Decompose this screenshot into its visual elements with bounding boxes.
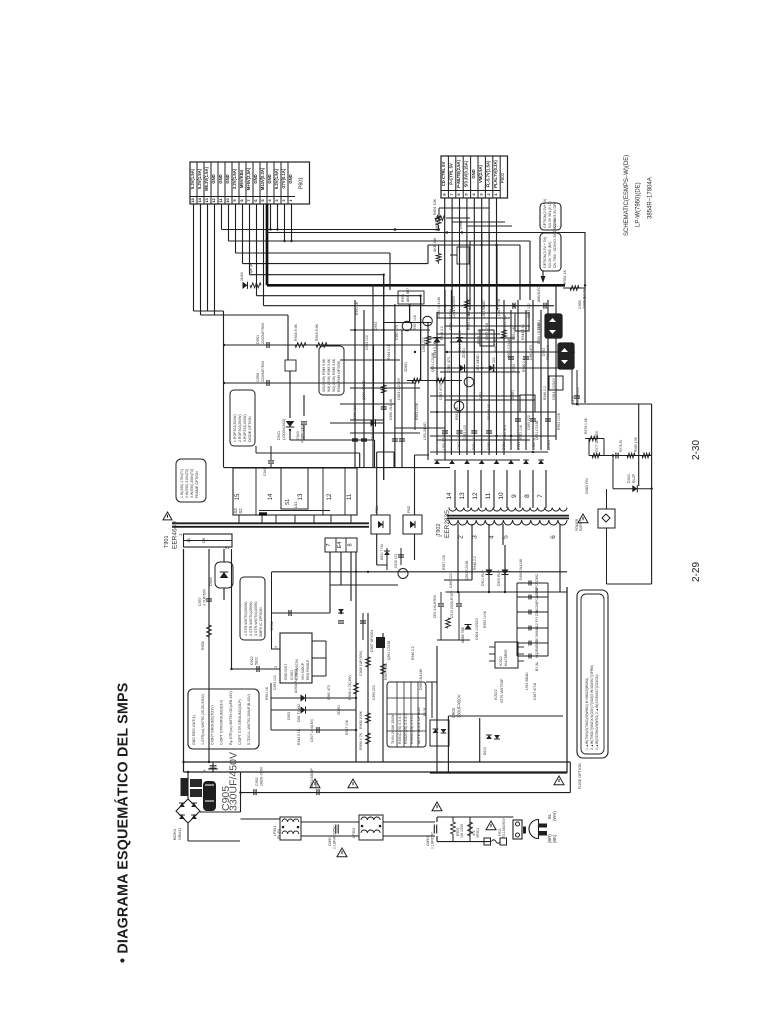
cap C950 [266, 380, 268, 386]
wires from T901 cells down to IC901 [329, 552, 331, 613]
svg-text:R946 2.2: R946 2.2 [543, 386, 547, 400]
svg-text:• DIAGRAMA ESQUEMÁTICO DEL SMP: • DIAGRAMA ESQUEMÁTICO DEL SMPS [115, 683, 132, 963]
svg-text:W4(150W) R949 5.6K: W4(150W) R949 5.6K [327, 358, 331, 392]
svg-text:C956: C956 [578, 300, 582, 309]
svg-text:1.W(450) 17IN(T1): 1.W(450) 17IN(T1) [180, 469, 184, 498]
svg-text:Ry-STR(xx)-W6753 GD(xFB.45V): Ry-STR(xx)-W6753 GD(xFB.45V) [229, 691, 233, 745]
svg-text:MUTE MODE OPTION: MUTE MODE OPTION [417, 707, 421, 744]
svg-text:BY AL: BY AL [535, 662, 539, 671]
svg-text:T902: T902 [436, 523, 442, 536]
HIC pin definition rounded box [188, 689, 259, 749]
svg-text:L951 BEAD: L951 BEAD [482, 300, 486, 318]
warning triangle CM902 [432, 802, 442, 811]
svg-text:D956 1N4148: D956 1N4148 [437, 297, 441, 318]
svg-text:STR-W6750F: STR-W6750F [499, 678, 504, 703]
mesh small components [412, 378, 421, 383]
rail y572 [272, 571, 568, 573]
svg-text:C908 1UF(50V): C908 1UF(50V) [359, 651, 363, 676]
component stack right of T902 [517, 582, 548, 584]
AC wire top [241, 818, 281, 820]
varistor VR901 [468, 822, 473, 836]
svg-text:(1000V/26A): (1000V/26A) [282, 418, 286, 440]
T902 primary pins [457, 524, 459, 545]
svg-text:4: 4 [274, 646, 278, 648]
svg-text:R906 4.7K: R906 4.7K [359, 732, 363, 750]
right column x368 x383 [367, 613, 369, 762]
electrolytic cap body [203, 781, 216, 811]
svg-text:5/3.3V 7960 (B/I): 5/3.3V 7960 (B/I) [548, 242, 552, 268]
svg-text:R974 1.5K: R974 1.5K [584, 417, 588, 434]
svg-text:S1: S1 [285, 499, 291, 505]
svg-text:3.W(650) 25IN(T3): 3.W(650) 25IN(T3) [190, 469, 194, 498]
svg-text:CM902: CM902 [426, 835, 430, 846]
svg-text:C950: C950 [256, 373, 260, 382]
resistor R949 [316, 343, 327, 348]
svg-text:FRAME OPTION: FRAME OPTION [195, 471, 199, 498]
T901 label [163, 512, 172, 520]
svg-text:12: 12 [472, 492, 479, 500]
svg-text:5.3V(1.5A): 5.3V(1.5A) [197, 168, 202, 189]
AC plug [529, 820, 539, 839]
svg-text:IC922: IC922 [499, 656, 503, 666]
svg-text:CR1 5.6UF/50V: CR1 5.6UF/50V [433, 594, 437, 618]
component box EM [457, 247, 469, 264]
svg-text:IC922: IC922 [493, 689, 498, 700]
bus wires from P801 [221, 204, 223, 230]
svg-text:C953 102: C953 102 [503, 315, 507, 330]
wires to jumper [606, 489, 608, 509]
svg-text:R944 5.1K: R944 5.1K [487, 403, 491, 420]
wires into jumper boxes [376, 452, 378, 515]
cap D922 on y669 [256, 666, 258, 672]
svg-text:R985 1.5K: R985 1.5K [634, 436, 638, 452]
svg-text:C953 102: C953 102 [365, 335, 369, 350]
T902 secondary pins [454, 470, 456, 508]
svg-text:C910 2200UF/16V: C910 2200UF/16V [450, 590, 454, 618]
FUSE OPTION rounded boxes [577, 590, 608, 758]
jumper box DR1 [371, 515, 390, 534]
svg-text:C953 102: C953 102 [527, 303, 531, 318]
svg-text:C960 473: C960 473 [395, 325, 399, 340]
dense mesh horizontals [437, 312, 520, 314]
cap C907 on y730 [316, 727, 318, 733]
svg-text:M5.3V(1.5A): M5.3V(1.5A) [204, 167, 209, 191]
svg-text:D956 1N4148: D956 1N4148 [389, 399, 393, 420]
dense mesh verticals [354, 300, 356, 468]
svg-text:W5(200W) R949 5.6K: W5(200W) R949 5.6K [322, 358, 326, 392]
box IC951 [480, 330, 494, 346]
svg-text:D953: D953 [374, 322, 378, 330]
IC901 lower wires [271, 697, 356, 699]
cap C976 on vertical [576, 370, 578, 404]
svg-text:1N60: 1N60 [240, 272, 244, 281]
staircase wires to T901 [290, 439, 375, 441]
component row y455 [589, 455, 652, 457]
svg-text:VIN S/OCP: VIN S/OCP [301, 662, 305, 680]
cap CM902 [433, 825, 435, 834]
vertical x240 drop [240, 772, 242, 812]
svg-text:R944 5.1K: R944 5.1K [433, 341, 437, 358]
svg-text:L951 BEAD: L951 BEAD [423, 422, 427, 440]
svg-text:5.3V(1.5A): 5.3V(1.5A) [190, 168, 195, 189]
svg-text:10: 10 [498, 492, 505, 500]
svg-text:C953 102: C953 102 [487, 435, 491, 450]
wire y345 snubber top [224, 344, 373, 346]
svg-text:R954 1K: R954 1K [563, 269, 567, 284]
svg-text:R957 10K: R957 10K [345, 719, 349, 735]
svg-text:ZD951: ZD951 [547, 440, 551, 450]
svg-text:3: 3 [472, 535, 479, 539]
svg-text:ZD951: ZD951 [337, 705, 341, 715]
relay RL91 [430, 720, 449, 746]
svg-text:C967 470U: C967 470U [497, 298, 501, 316]
svg-text:11: 11 [485, 492, 492, 499]
transistor Q910 [330, 584, 398, 586]
svg-text:R949 5.6K: R949 5.6K [315, 323, 319, 341]
svg-text:2200UF/50V: 2200UF/50V [261, 360, 265, 382]
svg-text:D956 1N4148: D956 1N4148 [519, 559, 523, 580]
svg-text:D922: D922 [250, 656, 254, 665]
warning triangle 1 [310, 779, 320, 788]
svg-text:C977 1UF/50V: C977 1UF/50V [595, 430, 599, 452]
trunk x223.5 [223, 311, 225, 468]
svg-text:C/ONT GROUND(TO1V): C/ONT GROUND(TO1V) [210, 705, 214, 745]
svg-text:0.1UF/CA?: 0.1UF/CA? [431, 832, 435, 849]
svg-text:R944 5.1K: R944 5.1K [387, 343, 391, 360]
svg-text:R948 5.6K: R948 5.6K [294, 323, 298, 341]
cap C940 [303, 395, 305, 416]
svg-text:D952: D952 [459, 220, 463, 229]
C905 plus cap [212, 762, 214, 772]
svg-text:(BK): (BK) [552, 834, 557, 843]
svg-text:C940: C940 [296, 431, 300, 440]
diode row above T902 [434, 460, 440, 464]
svg-text:T901: T901 [164, 535, 170, 548]
svg-text:3854R–17804A: 3854R–17804A [648, 177, 654, 219]
svg-text:M5V/KB4: M5V/KB4 [239, 169, 244, 188]
svg-text:13: 13 [298, 493, 304, 500]
svg-text:C953 102: C953 102 [463, 425, 467, 440]
diode D941 [289, 371, 291, 418]
svg-text:D907 UF4004: D907 UF4004 [370, 630, 374, 652]
svg-text:C955 222: C955 222 [492, 357, 496, 372]
box PC817 [520, 395, 535, 412]
svg-text:GBU4J: GBU4J [178, 828, 182, 840]
svg-text:R803: R803 [435, 222, 439, 231]
svg-text:8: 8 [524, 494, 531, 498]
varistor area [451, 822, 456, 834]
connector P801 [190, 162, 310, 204]
diode D957 with resistor [243, 282, 248, 289]
vertical x231 upper [231, 549, 233, 669]
svg-text:14: 14 [446, 492, 453, 500]
svg-text:GND REG-OUT(1): GND REG-OUT(1) [192, 715, 196, 745]
svg-text:A06/APLP 6963: A06/APLP 6963 [294, 669, 298, 693]
svg-text:2200UF/50V: 2200UF/50V [261, 322, 265, 344]
svg-text:2.W(550) 21IN(T2): 2.W(550) 21IN(T2) [185, 469, 189, 498]
resistor R954b row [585, 438, 604, 440]
svg-text:AKB 4R7: AKB 4R7 [406, 288, 410, 302]
svg-text:R944 5.1K: R944 5.1K [521, 323, 525, 340]
thick GND bus [266, 204, 269, 285]
bridge wires [187, 772, 189, 799]
svg-text:Q951 C3198: Q951 C3198 [362, 381, 366, 400]
svg-text:3: 3 [274, 666, 278, 668]
svg-text:13: 13 [204, 198, 209, 203]
svg-text:HQ2E6EKD: HQ2E6EKD [535, 639, 539, 658]
svg-text:C904: C904 [451, 707, 456, 718]
snubber option rounded box [319, 346, 344, 395]
svg-text:R946 2.2: R946 2.2 [440, 326, 444, 340]
svg-text:TH901: TH901 [175, 788, 179, 798]
P802 bundle verticals descend [444, 233, 446, 313]
svg-text:CM901: CM901 [328, 835, 332, 846]
svg-text:GND: GND [218, 174, 223, 183]
svg-text:12: 12 [211, 198, 216, 203]
svg-text:C953 102: C953 102 [273, 675, 277, 690]
svg-text:C960 473: C960 473 [447, 357, 451, 372]
svg-text:R801 10K: R801 10K [433, 198, 437, 215]
wire h430 [290, 439, 340, 441]
svg-text:0.1UF/AC275V: 0.1UF/AC275V [333, 825, 337, 849]
resistor R802 [436, 254, 441, 262]
second left join wire [201, 314, 289, 316]
IC901 pin stubs [271, 648, 280, 650]
svg-text:C955 222: C955 222 [449, 573, 453, 588]
diode A06 on y698 [301, 694, 306, 701]
svg-text:D953: D953 [512, 364, 516, 372]
wires around RS table [431, 682, 433, 718]
extra bundle wires [446, 217, 470, 219]
svg-text:P-CTRL 5V: P-CTRL 5V [449, 163, 454, 185]
svg-text:R957 10K: R957 10K [477, 328, 481, 344]
svg-text:R958: R958 [201, 641, 205, 650]
svg-text:3.RGP25J(100W): 3.RGP25J(100W) [243, 414, 247, 442]
svg-text:Q951 C3198: Q951 C3198 [507, 339, 511, 358]
svg-text:R946 2.2: R946 2.2 [371, 426, 375, 440]
svg-text:14: 14 [268, 493, 274, 500]
svg-text:A02/AP02 C960: A02/AP02 C960 [535, 588, 539, 612]
svg-text:R953 100K: R953 100K [483, 610, 487, 628]
svg-text:R951 1K: R951 1K [512, 326, 516, 340]
T901 pin cells 7 E4 8 [325, 538, 357, 552]
FRAME OPTION rounded box [176, 459, 206, 502]
svg-text:AKB/4LPC2: AKB/4LPC2 [537, 284, 541, 302]
svg-text:C967 470U: C967 470U [485, 322, 489, 340]
cap on bus y306 [512, 303, 514, 309]
resistor left of P802 [435, 216, 445, 221]
svg-text:D953: D953 [287, 712, 291, 720]
svg-text:2.▲W(796G/7(96G)X/4(G5V)/7(3G8: 2.▲W(796G/7(96G)X/4(G5V)/7(3G8)5 W:3G85V… [590, 665, 594, 750]
primary DC rail y762 [184, 761, 571, 763]
svg-text:C964 102/1KV: C964 102/1KV [452, 295, 456, 318]
svg-text:R944 5.1K: R944 5.1K [517, 433, 521, 450]
svg-text:C960 473: C960 473 [327, 685, 331, 700]
dark component DB1 [545, 314, 562, 338]
svg-text:E4: E4 [337, 542, 343, 549]
resistor on x438 column [436, 216, 441, 225]
staircase stub verticals [373, 345, 375, 440]
svg-text:SCHEMATIC(ESMPS–W)(DE): SCHEMATIC(ESMPS–W)(DE) [624, 155, 630, 236]
svg-text:GND D/ST: GND D/ST [284, 664, 288, 680]
svg-text:C955 222: C955 222 [353, 405, 357, 420]
svg-text:7: 7 [537, 494, 544, 498]
svg-text:L01: L01 [293, 501, 298, 508]
svg-text:D905 RLP: D905 RLP [497, 570, 501, 586]
svg-text:RS93C(2S) 0.3 0.2: RS93C(2S) 0.3 0.2 [410, 714, 414, 744]
spark gap squares [484, 838, 491, 845]
svg-text:P801: P801 [299, 177, 305, 189]
svg-text:D953: D953 [502, 442, 506, 450]
svg-text:FBD: FBD [407, 505, 411, 513]
transistor Q951 [402, 321, 412, 331]
svg-text:P802: P802 [500, 172, 505, 183]
T902 primary windings bottom [449, 520, 567, 525]
components on right columns [376, 637, 385, 648]
svg-text:C/OPT STR GROUND(OLP): C/OPT STR GROUND(OLP) [238, 699, 242, 745]
svg-text:R953 100K: R953 100K [467, 298, 471, 316]
svg-text:2-29: 2-29 [691, 562, 702, 582]
line filter LF902 [359, 815, 383, 840]
svg-text:VM(2.5A): VM(2.5A) [478, 164, 483, 183]
svg-text:S2: S2 [238, 508, 243, 514]
svg-text:L951 BEAD: L951 BEAD [442, 432, 446, 450]
svg-text:M14V(0.3A): M14V(0.3A) [260, 167, 265, 190]
svg-text:Q951 C3198: Q951 C3198 [465, 561, 469, 580]
bus y232 extension [267, 232, 585, 234]
svg-text:R946 2.2: R946 2.2 [473, 556, 477, 570]
svg-text:ZD951: ZD951 [462, 348, 466, 358]
svg-text:GND: GND [225, 174, 230, 183]
P802 pin wires [444, 198, 446, 233]
wire y288 with resistor [563, 287, 585, 289]
svg-text:11: 11 [347, 493, 353, 500]
svg-text:6: 6 [550, 535, 557, 539]
svg-text:R948/R949 OPTION: R948/R949 OPTION [337, 360, 341, 392]
IC922 box [495, 642, 518, 668]
RS option table [387, 682, 426, 747]
svg-text:7: 7 [326, 543, 332, 546]
wire y489 diode [613, 488, 652, 490]
svg-text:FIL(B): FIL(B) [277, 829, 281, 839]
svg-text:5: 5 [503, 535, 510, 539]
svg-text:C967 470U: C967 470U [457, 432, 461, 450]
svg-text:R951: R951 [401, 294, 405, 302]
dark component DB2 [558, 343, 574, 369]
svg-text:2.RGP30J(250W): 2.RGP30J(250W) [238, 414, 242, 442]
svg-text:R951 1K: R951 1K [494, 338, 498, 352]
svg-text:SMPS IC OPTION: SMPS IC OPTION [259, 607, 263, 637]
svg-text:R944 5.1K: R944 5.1K [297, 728, 301, 745]
box L901 [515, 313, 529, 331]
T901 primary thick segment [259, 512, 267, 515]
svg-text:D932: D932 [270, 621, 274, 630]
T901 pin stubs to core [238, 515, 240, 523]
svg-text:R957 10K: R957 10K [442, 554, 446, 570]
svg-text:-27V(0.1A): -27V(0.1A) [281, 168, 286, 189]
svg-text:D940: D940 [627, 474, 631, 483]
svg-text:OPTION(2.5V+5V): OPTION(2.5V+5V) [543, 199, 547, 228]
svg-text:D951: D951 [256, 335, 260, 344]
svg-text:15: 15 [235, 493, 241, 500]
svg-text:5/3.3V SEL(0.15): 5/3.3V SEL(0.15) [548, 201, 552, 228]
svg-text:C907 104(1KV): C907 104(1KV) [310, 719, 314, 742]
svg-text:R946 2.2: R946 2.2 [522, 358, 526, 372]
warning triangle fuse [486, 821, 496, 830]
caps left in output section [438, 603, 444, 605]
transformer T901 primary block [233, 468, 357, 515]
svg-text:CN 7960 : CD5V/3.3V(2.5V) 5V: CN 7960 : CD5V/3.3V(2.5V) 5V [553, 218, 557, 268]
svg-text:L951 BEAD: L951 BEAD [525, 672, 529, 690]
svg-text:3.▲W(G9786G/5(W3G) 2.▲W(43385: 3.▲W(G9786G/5(W3G) 2.▲W(4338545/7(G33G8)… [595, 674, 599, 750]
svg-text:RS91C(2S) 0.3 0.3: RS91C(2S) 0.3 0.3 [398, 714, 402, 744]
wire y467 above T901 [224, 467, 450, 469]
AC line y792 [241, 792, 571, 794]
right edge vertical [651, 404, 653, 584]
svg-text:EER2835: EER2835 [444, 510, 451, 538]
svg-text:5822: 5822 [255, 657, 259, 665]
svg-text:RS92C(2S) 0.3 0.3: RS92C(2S) 0.3 0.3 [404, 714, 408, 744]
SMPS IC OPTION box [240, 577, 265, 640]
right loop top wire y404 [572, 403, 652, 405]
svg-text:2: 2 [458, 535, 465, 539]
svg-text:9: 9 [511, 494, 518, 498]
T902 core [447, 515, 569, 517]
jumper box right [598, 509, 615, 528]
power earth triangle [578, 514, 588, 523]
diodes D905 D906 [488, 545, 490, 592]
svg-text:1.RGP30J(300W): 1.RGP30J(300W) [233, 414, 237, 442]
svg-text:EARTH: EARTH [579, 520, 583, 531]
svg-text:R907 0.68: R907 0.68 [384, 663, 388, 680]
callout note box 2 [540, 233, 561, 271]
svg-text:2KB6–250V: 2KB6–250V [260, 766, 264, 786]
svg-text:D66 TYM92: D66 TYM92 [297, 704, 301, 722]
junction dots [266, 231, 268, 233]
P801 pin wires [193, 204, 195, 311]
svg-text:FUSE OPTION: FUSE OPTION [578, 763, 582, 789]
svg-text:3: 3 [225, 546, 231, 549]
triangle below output [554, 776, 564, 785]
transistor Q953 [464, 377, 474, 387]
svg-text:FL-5.7V(1.5A): FL-5.7V(1.5A) [486, 160, 491, 187]
svg-text:OPTION(3.3V + 5V): OPTION(3.3V + 5V) [543, 237, 547, 268]
svg-text:TH94 200W 150W: TH94 200W 150W [391, 714, 395, 744]
svg-text:1W 1/2W: 1W 1/2W [460, 823, 464, 838]
AC wires to fuse [437, 816, 514, 818]
svg-text:L951 BEAD: L951 BEAD [476, 354, 480, 372]
svg-text:R953 100K: R953 100K [557, 412, 561, 430]
components under T901 cells [338, 609, 344, 613]
svg-text:C967 470U: C967 470U [533, 682, 537, 700]
svg-text:330UF/450V: 330UF/450V [457, 694, 462, 718]
svg-text:R957 10K: R957 10K [413, 314, 417, 330]
svg-text:AKB 10K: AKB 10K [433, 237, 437, 252]
svg-text:5.3V(1.5A): 5.3V(1.5A) [274, 168, 279, 189]
box KIA431 [549, 376, 563, 390]
svg-text:R951 1K: R951 1K [355, 301, 359, 315]
svg-text:(WH): (WH) [552, 811, 557, 821]
svg-text:2200UF/10V: 2200UF/10V [583, 288, 587, 309]
svg-text:R976 JK: R976 JK [619, 439, 623, 452]
diode D906 on y710 [301, 706, 306, 713]
svg-text:RL2P: RL2P [632, 473, 636, 483]
svg-text:C960 473: C960 473 [532, 435, 536, 450]
wire x356 long column [355, 552, 357, 762]
warning triangle below CM901 [337, 848, 347, 857]
thermistor cluster [181, 778, 189, 796]
svg-text:3.STR-W6754(100W): 3.STR-W6754(100W) [254, 601, 258, 636]
